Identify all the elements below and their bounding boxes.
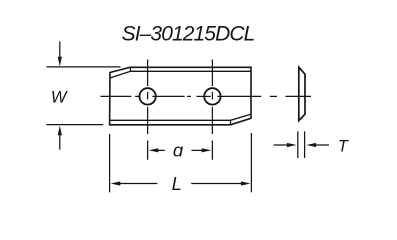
svg-text:ɑ: ɑ [173, 140, 184, 161]
svg-text:W: W [51, 89, 68, 107]
svg-text:T: T [338, 137, 350, 155]
svg-text:SI–301215DCL: SI–301215DCL [122, 23, 255, 46]
svg-text:L: L [172, 173, 182, 194]
